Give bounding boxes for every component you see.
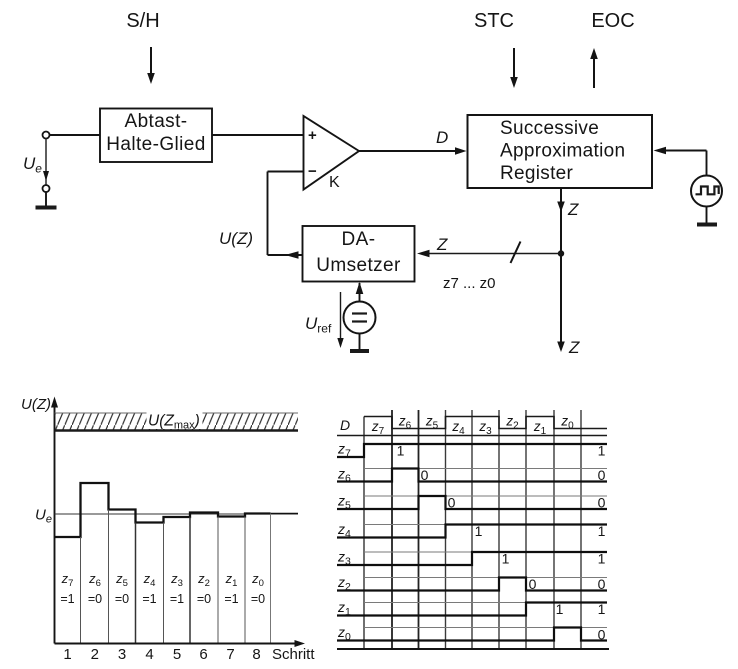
waveform D (header row) (364, 417, 607, 429)
svg-text:0: 0 (421, 467, 429, 483)
row label z1 (337, 599, 351, 618)
svg-text:3: 3 (118, 646, 126, 663)
svg-text:0: 0 (598, 495, 606, 511)
waveform z7 (337, 444, 607, 457)
svg-text:=0: =0 (115, 592, 129, 606)
lower terminal (43, 185, 50, 192)
svg-text:Approximation: Approximation (500, 141, 625, 162)
svg-text:1: 1 (63, 646, 71, 663)
svg-text:5: 5 (173, 646, 181, 663)
svg-text:z7 ... z0: z7 ... z0 (443, 275, 496, 292)
svg-text:=1: =1 (224, 592, 238, 606)
step bit labels z7=1 ... z0=0 (60, 571, 265, 606)
x axis tick labels 1-8 (63, 646, 260, 663)
svg-text:1: 1 (397, 443, 405, 459)
clock source wire to SAR (654, 147, 707, 176)
label z7 ... z0 (443, 275, 496, 292)
header column labels z7..z0 (371, 414, 574, 438)
svg-text:0: 0 (598, 576, 606, 592)
svg-text:K: K (329, 174, 340, 191)
row label z3 (337, 549, 351, 568)
input terminal Ue (43, 132, 50, 139)
label D (436, 128, 448, 147)
waveform z3 (337, 552, 607, 565)
row label z7 (337, 441, 351, 460)
svg-text:Schritt: Schritt (272, 646, 315, 663)
svg-text:STC: STC (474, 10, 514, 32)
wire comparator minus input (268, 172, 304, 256)
node junction on Z bus (558, 250, 564, 256)
Ue source wire down (43, 138, 49, 185)
label U(Z) (219, 229, 253, 248)
svg-text:=0: =0 (88, 592, 102, 606)
svg-text:DA-: DA- (342, 229, 376, 250)
clock generator symbol (691, 176, 722, 207)
svg-text:4: 4 (145, 646, 153, 663)
svg-text:0: 0 (529, 576, 537, 592)
svg-text:=1: =1 (170, 592, 184, 606)
block DA-Umsetzer (303, 226, 415, 282)
svg-text:S/H: S/H (126, 10, 159, 32)
svg-text:1: 1 (556, 601, 564, 617)
label Schritt (272, 646, 315, 663)
label Z (upper) (567, 200, 579, 219)
label Uref (305, 314, 332, 336)
wire comparator output D (359, 147, 467, 154)
svg-text:Z: Z (436, 235, 448, 254)
waveform z5 (337, 496, 607, 509)
STC arrow (510, 48, 518, 88)
wire S/H block to comparator (212, 134, 304, 136)
S/H control arrow (147, 47, 155, 84)
ground (input) (36, 192, 57, 208)
svg-text:2: 2 (91, 646, 99, 663)
label EOC (591, 10, 634, 32)
waveform z0 (337, 628, 607, 641)
Ue reference line (55, 513, 299, 515)
comparator K (op-amp triangle) (304, 116, 360, 191)
D row bottom boundary (337, 435, 607, 437)
svg-text:7: 7 (226, 646, 234, 663)
wire U(Z) output of DA (268, 251, 303, 259)
bus slash marker (511, 242, 521, 264)
svg-text:1: 1 (598, 443, 606, 459)
block Successive Approximation Register (468, 115, 653, 188)
label Z (lower) (568, 338, 580, 357)
svg-text:Halte-Glied: Halte-Glied (106, 134, 205, 155)
waveform z4 (337, 525, 607, 538)
svg-text:1: 1 (475, 523, 483, 539)
svg-text:−: − (308, 163, 317, 180)
row label z4 (337, 521, 351, 540)
svg-text:D: D (436, 128, 448, 147)
y axis U(Z) (51, 397, 58, 644)
timing row high-level guide lines (364, 444, 607, 628)
svg-text:=0: =0 (197, 592, 211, 606)
svg-text:Register: Register (500, 163, 574, 184)
svg-text:Z: Z (567, 200, 579, 219)
ground (clock) (697, 207, 717, 225)
svg-text:D: D (340, 417, 350, 433)
row label z0 (337, 624, 351, 643)
svg-text:Z: Z (568, 338, 580, 357)
label Ue (23, 154, 42, 176)
waveform z6 (337, 469, 607, 482)
row label z5 (337, 493, 351, 512)
svg-text:=1: =1 (60, 592, 74, 606)
decision digits in grid (397, 443, 564, 618)
svg-text:1: 1 (598, 601, 606, 617)
row label z2 (337, 574, 351, 593)
reference source Uref (344, 302, 376, 334)
label S/H (126, 10, 159, 32)
label Z (bus) (436, 235, 448, 254)
label D (table) (340, 417, 350, 433)
staircase U(Z) waveform (55, 483, 299, 537)
svg-text:1: 1 (502, 551, 510, 567)
x axis Schritt (55, 640, 306, 647)
svg-text:Abtast-: Abtast- (125, 111, 188, 132)
svg-text:Successive: Successive (500, 118, 599, 139)
axis label U(Z) (21, 396, 51, 413)
row label z6 (337, 466, 351, 485)
wire Uref to DA (356, 282, 364, 302)
label Ue (chart) (35, 507, 52, 526)
table bottom border (337, 648, 609, 650)
label STC (474, 10, 514, 32)
result digits column (598, 443, 606, 643)
svg-text:Umsetzer: Umsetzer (316, 255, 401, 276)
step column separators (81, 510, 271, 644)
svg-text:0: 0 (598, 627, 606, 643)
svg-text:+: + (308, 127, 317, 144)
svg-text:U(Z): U(Z) (219, 229, 253, 248)
waveform z1 (337, 603, 607, 616)
svg-text:1: 1 (598, 523, 606, 539)
svg-text:8: 8 (252, 646, 260, 663)
timing grid vertical lines (364, 410, 581, 649)
svg-text:EOC: EOC (591, 10, 634, 32)
svg-text:=0: =0 (251, 592, 265, 606)
svg-text:6: 6 (199, 646, 207, 663)
label U(Zmax) (148, 413, 200, 432)
svg-text:0: 0 (598, 467, 606, 483)
svg-text:=1: =1 (142, 592, 156, 606)
svg-text:1: 1 (598, 551, 606, 567)
EOC arrow (590, 48, 598, 88)
waveform z2 (337, 578, 607, 591)
wire Z down from SAR (557, 188, 565, 352)
hatched band U(Zmax) (55, 411, 299, 431)
svg-text:0: 0 (448, 495, 456, 511)
svg-text:U(Z): U(Z) (21, 396, 51, 413)
wire input to S/H block (50, 134, 101, 136)
ground (Uref source) (350, 334, 369, 352)
block Abtast-Halte-Glied (100, 109, 212, 163)
Uref direction arrow (337, 292, 343, 348)
bus wire SAR to DA-Umsetzer (417, 250, 561, 257)
